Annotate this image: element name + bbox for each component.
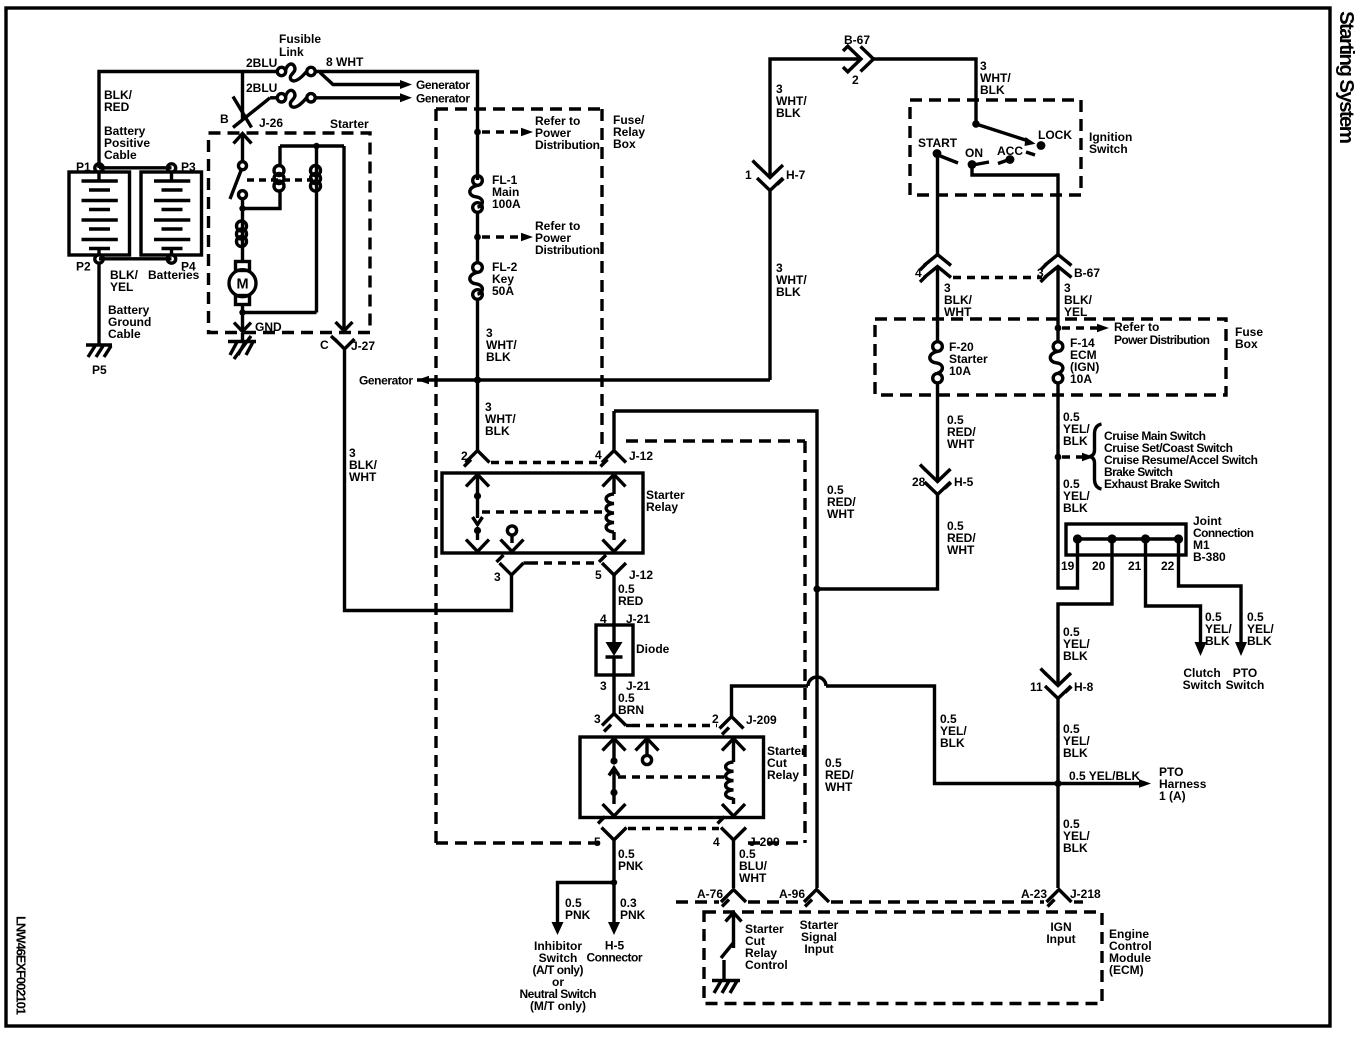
starter relay coil pin (bottom arrow)	[603, 532, 626, 552]
label 2BLU (upper)	[246, 56, 277, 70]
joint connection M1 B-380 box	[1066, 524, 1186, 555]
label F-20 Starter 10A	[949, 340, 988, 378]
node: refer tap 1	[474, 129, 481, 136]
wire: hold coil return to motor bottom	[243, 311, 317, 314]
label 3 WHT/BLK (above J-12 pin 2)	[485, 400, 516, 438]
svg-text:3: 3	[494, 570, 501, 584]
battery 1 box	[69, 172, 130, 255]
svg-text:P3: P3	[181, 160, 196, 174]
label 0.5 PNK (pin 5)	[618, 847, 644, 873]
label 0.5 YEL/BLK (cut relay coil wire)	[940, 712, 967, 750]
cut relay fixed contact (lower dot)	[610, 789, 617, 796]
connector A-23 / J-218	[1047, 890, 1072, 907]
starter relay fixed contact (upper dot)	[474, 492, 481, 499]
label 0.5 RED	[618, 582, 644, 608]
svg-text:8 WHT: 8 WHT	[326, 55, 364, 69]
wire: PTO harness branch	[1058, 782, 1139, 785]
svg-text:P2: P2	[76, 260, 91, 274]
label B-67 (lower)	[1074, 266, 1100, 280]
label J-21 (bottom)	[626, 679, 650, 693]
svg-text:H-8: H-8	[1074, 680, 1094, 694]
label B-67 (top)	[844, 33, 870, 47]
svg-text:21: 21	[1128, 559, 1142, 573]
wire: coil tops header	[280, 144, 344, 147]
label PTO Switch	[1226, 666, 1265, 692]
label 0.5 YEL/BLK (above tap)	[1063, 410, 1090, 448]
svg-text:11: 11	[1030, 680, 1043, 694]
svg-text:2: 2	[712, 712, 719, 726]
starter relay contact pin (bottom arrow)	[466, 533, 489, 552]
label 0.5 YEL/BLK (below tap)	[1063, 477, 1090, 515]
connector J-12 pin 4	[601, 411, 627, 467]
connector J-209 pin 5	[598, 817, 627, 841]
label P1	[76, 160, 91, 174]
label 0.5 YEL/BLK (still below junction)	[1063, 817, 1090, 855]
wire: 8 WHT link output to FL feed	[315, 72, 477, 181]
label BLK/RED	[104, 88, 133, 114]
label Refer to Power Distribution 2	[535, 219, 600, 257]
wire: J-209 pin 2 up and over (with hop) to YEL/BLK	[732, 677, 1057, 784]
svg-text:A-23: A-23	[1021, 887, 1047, 901]
wire FL-1 to FL-2	[476, 212, 479, 262]
svg-text:2: 2	[461, 449, 468, 463]
label Inhibitor Switch (A/T only) or Neutral Switch (M/T only)	[520, 939, 597, 1013]
dashed arrow refer to power distribution 2	[482, 233, 533, 242]
ECM dashed box	[704, 912, 1102, 1004]
cut relay contact pin (top arrow)	[603, 739, 626, 759]
dashed link J-12 pins 3-5	[530, 561, 600, 564]
starter dashed box	[209, 133, 371, 333]
svg-text:BLK/RED: BLK/RED	[104, 88, 133, 114]
label 3 WHT/BLK (below H-7)	[776, 261, 807, 299]
label Fuse Box	[1235, 325, 1263, 351]
cruise switch list brace	[1090, 424, 1102, 489]
label 4 (J-21 pin)	[600, 612, 607, 626]
fuse box dashed outline	[875, 319, 1226, 395]
label 0.5 PNK (left branch)	[565, 896, 591, 922]
label 2 (J-209 pin)	[712, 712, 719, 726]
node: starter junction	[239, 205, 245, 211]
connector C / J-27	[331, 336, 355, 349]
label Refer to Power Distribution (fuse box)	[1114, 320, 1210, 347]
label C	[320, 338, 329, 352]
label 0.5 YEL/BLK (above H-8)	[1063, 625, 1090, 663]
label J-209 (top)	[746, 713, 777, 727]
label J-27	[351, 339, 375, 353]
svg-text:J-12: J-12	[629, 568, 653, 582]
wire: generator horizontal line	[417, 378, 770, 381]
svg-text:Starting System: Starting System	[1335, 11, 1358, 144]
svg-text:B: B	[220, 112, 229, 126]
starter relay contact pin (top arrow)	[466, 475, 489, 494]
label 0.5 RED/WHT (above H-5)	[947, 413, 976, 451]
svg-text:Starter: Starter	[330, 117, 369, 131]
terminal P1	[95, 164, 103, 172]
starter relay coil pin (top arrow)	[603, 475, 626, 495]
svg-text:P5: P5	[92, 363, 107, 377]
connector B / J-26 (X symbol)	[233, 97, 270, 128]
label J-209 (bottom)	[749, 835, 780, 849]
arrow to PTO switch	[1235, 642, 1247, 656]
label 0.5 BRN	[618, 691, 644, 717]
label Engine Control Module (ECM)	[1109, 927, 1152, 977]
label 4 (J-12 pin)	[595, 448, 602, 462]
label 20	[1092, 559, 1106, 573]
label Refer to Power Distribution 1	[535, 114, 600, 152]
svg-text:Generator: Generator	[416, 78, 470, 92]
dashed link J-12 pins 2-4	[491, 461, 600, 464]
dashed mechanical link (relay)	[482, 510, 604, 513]
label 0.5 RED/WHT (below H-5)	[947, 519, 976, 557]
contact wiper from START	[939, 156, 958, 164]
wire: joint pin 20 to H-8	[1058, 543, 1112, 685]
label Battery Ground Cable	[108, 303, 151, 341]
label P2	[76, 260, 91, 274]
label J-12 (top)	[629, 449, 653, 463]
svg-text:H-7: H-7	[786, 168, 806, 182]
arrow to Generator (left)	[359, 374, 429, 388]
joint terminal 22	[1174, 534, 1183, 543]
label J-218	[1070, 887, 1101, 901]
connector J-12 pin 2	[464, 450, 490, 467]
ECM internal ground	[712, 981, 740, 994]
label cruise switch list	[1104, 429, 1258, 491]
svg-text:22: 22	[1161, 559, 1175, 573]
svg-text:J-12: J-12	[629, 449, 653, 463]
starter magnetic switch contact	[230, 162, 247, 199]
joint terminal 21	[1141, 534, 1150, 543]
contact tick ACC	[998, 161, 1007, 164]
label 21	[1128, 559, 1142, 573]
label 3 WHT/BLK (above H-7)	[776, 82, 807, 120]
arrow to PTO harness	[1139, 779, 1151, 788]
connector J-209 pin 4	[718, 817, 747, 841]
label 2 (J-12 pin)	[461, 449, 468, 463]
label 2BLU (lower)	[246, 81, 277, 95]
svg-text:C: C	[320, 338, 329, 352]
arrow to H-5 connector	[608, 922, 620, 935]
label 3 BLK/YEL (on wire)	[1064, 281, 1093, 319]
label Starter Cut Relay	[767, 744, 806, 782]
svg-text:Generator: Generator	[359, 374, 413, 388]
label 0.5 YEL/BLK (below H-8)	[1063, 722, 1090, 760]
contact tick ON	[976, 162, 990, 165]
wire: diode to J-209 pin 3	[612, 675, 615, 713]
svg-text:ClutchSwitch: ClutchSwitch	[1183, 666, 1222, 692]
fuse F-14 ECM (IGN) 10A	[1050, 342, 1063, 383]
field winding	[237, 212, 247, 262]
label 3 (J-209 pin)	[594, 712, 601, 726]
svg-text:StarterSignalInput: StarterSignalInput	[800, 918, 839, 956]
label Starter Signal Input	[800, 918, 839, 956]
label H-8	[1074, 680, 1094, 694]
wire: J-209 pin 5 down (PNK) with branch	[558, 840, 615, 924]
battery 1 plates	[82, 172, 118, 255]
ground P5	[86, 345, 112, 357]
label P4	[181, 260, 196, 274]
label GND	[255, 320, 282, 334]
svg-text:Generator: Generator	[416, 92, 470, 106]
dashed link J-209 pins 3-2	[632, 724, 717, 727]
svg-text:FL-1Main100A: FL-1Main100A	[492, 173, 521, 211]
cut relay NO terminal (circle pin)	[636, 739, 659, 765]
arrow to inhibitor switch	[552, 922, 564, 935]
svg-text:4: 4	[595, 448, 602, 462]
node: coil header junction	[313, 143, 319, 149]
svg-text:GND: GND	[255, 320, 282, 334]
cut relay contact pin (bottom arrow)	[603, 796, 626, 817]
label Batteries	[148, 268, 200, 282]
wire: J-12 pin 4 feed over to RED/WHT rail	[614, 411, 817, 888]
label Starter	[330, 117, 369, 131]
connector J-209 pin 2	[720, 717, 744, 735]
label 5 (J-12 pin)	[595, 568, 602, 582]
wire: contact to C exit	[342, 146, 345, 331]
GND exit arrow	[234, 319, 251, 332]
label Joint Connection M1 B-380	[1193, 514, 1254, 564]
svg-text:IGNInput: IGNInput	[1046, 920, 1075, 946]
node: refer tap 2	[474, 234, 481, 241]
label 4 (connector pin)	[915, 266, 922, 280]
starter entry arrow (from J-26 pin)	[234, 134, 252, 162]
node: generator line / FL-2 junction	[474, 376, 481, 383]
solenoid coil 2 (hold-in)	[311, 146, 321, 313]
label P3	[181, 160, 196, 174]
svg-text:Diode: Diode	[636, 642, 670, 656]
svg-text:ON: ON	[965, 146, 983, 160]
wire: generator line up to H-7 and across to ignition	[770, 59, 976, 380]
svg-text:2: 2	[852, 73, 859, 87]
svg-text:J-26: J-26	[259, 116, 283, 130]
wire: F-14 to joint connection	[1058, 383, 1078, 588]
starter motor M	[229, 262, 256, 305]
label H-5 Connector	[587, 939, 643, 965]
svg-text:A-76: A-76	[697, 887, 723, 901]
wire: connector 4 to F-20	[936, 267, 939, 342]
terminal P4	[167, 255, 175, 263]
label J-26	[259, 116, 283, 130]
wire: J-12 pin 5 to diode	[612, 575, 615, 625]
starter case ground symbol	[228, 333, 256, 359]
svg-text:START: START	[918, 136, 958, 150]
label A-23	[1021, 887, 1047, 901]
dashed mechanical link (switch to coils)	[247, 178, 313, 181]
connector H-5 (double chevron down)	[920, 465, 951, 495]
wire: F-20 to H-5	[936, 383, 939, 481]
svg-text:J-27: J-27	[351, 339, 375, 353]
starter relay fixed contact (lower dot)	[474, 527, 481, 534]
contact LOCK	[1037, 128, 1073, 150]
node: cruise tap	[1055, 454, 1062, 461]
svg-text:ACC: ACC	[997, 144, 1023, 158]
label 19	[1061, 559, 1075, 573]
svg-text:J-209: J-209	[746, 713, 777, 727]
label 1 (H-7 pin)	[745, 168, 752, 182]
svg-text:2BLU: 2BLU	[246, 56, 277, 70]
starter relay coil	[606, 494, 614, 532]
label FL-1 Main 100A	[492, 173, 521, 211]
fuse/relay box dashed outline	[436, 109, 805, 843]
dashed link J-209 pins 5-4	[628, 827, 719, 830]
svg-text:B-67: B-67	[1074, 266, 1100, 280]
starter relay moving contact arrow	[473, 499, 483, 525]
label 0.5 BLU/WHT	[739, 847, 768, 885]
connector 3 / B-67 (double chevron up)	[1041, 255, 1072, 283]
label A-96	[779, 887, 805, 901]
svg-text:Batteries: Batteries	[148, 268, 200, 282]
dashed link between connectors 4 and 3	[953, 276, 1042, 279]
label 0.5 YEL/BLK (pto harness wire)	[1069, 769, 1140, 783]
label 28 (H-5 pin)	[912, 475, 926, 489]
label BLK/YEL	[110, 268, 139, 294]
wire: F-20 branch to RED/WHT rail	[817, 495, 938, 589]
label 3 BLK/WHT (starter to relay wire)	[349, 446, 378, 484]
wire: START output down	[936, 158, 939, 255]
starter relay box	[442, 473, 643, 553]
wire: J-27 down and right to J-12 pin 3 (3 BLK/WHT)	[345, 349, 512, 611]
svg-text:1: 1	[745, 168, 752, 182]
svg-text:0.5 YEL/BLK: 0.5 YEL/BLK	[1069, 769, 1140, 783]
label 0.5 RED/WHT (rail lower)	[825, 756, 854, 794]
label 0.5 YEL/BLK (clutch)	[1205, 610, 1232, 648]
starter cut relay box	[580, 737, 764, 818]
wire P1-P3	[99, 166, 172, 169]
contact ACC	[997, 144, 1023, 164]
C exit arrow	[336, 322, 353, 331]
connector J-12 pin 5	[599, 555, 626, 575]
label Ignition Switch	[1089, 130, 1132, 156]
svg-text:H-5: H-5	[954, 475, 974, 489]
svg-text:J-218: J-218	[1070, 887, 1101, 901]
node: motor bottom junction	[239, 309, 245, 315]
svg-text:LNW46EXF002101: LNW46EXF002101	[14, 916, 29, 1015]
cut relay coil pin (bottom arrow)	[722, 798, 745, 816]
label Starter Relay	[646, 488, 685, 514]
svg-text:5: 5	[595, 568, 602, 582]
label 3 WHT/BLK (right of ignition feed)	[980, 59, 1011, 97]
wire: ON output down-right	[972, 169, 1058, 255]
dashed arrow refer to power distribution 1	[482, 128, 533, 137]
svg-text:28: 28	[912, 475, 926, 489]
fuse FL-2 Key 50A	[470, 263, 483, 300]
svg-text:4: 4	[915, 266, 922, 280]
label 0.5 YEL/BLK (pto)	[1247, 610, 1274, 648]
dashed ECM connector line	[676, 900, 1083, 903]
node: RED/WHT junction at F-20 branch	[813, 585, 820, 592]
terminal P3	[167, 164, 175, 172]
wire: J-209 pin 4 to A-76 (0.5 BLU/WHT)	[732, 840, 735, 888]
contact ON	[965, 146, 983, 169]
dashed arrow refer to power distribution (fuse box)	[1062, 324, 1109, 333]
label H-7	[786, 168, 806, 182]
diode J-21 box	[596, 625, 633, 675]
label H-5	[954, 475, 974, 489]
node: PTO harness junction	[1054, 780, 1061, 787]
label 2 (B-67 pin)	[852, 73, 859, 87]
wire P2-P4	[99, 257, 172, 260]
solenoid coil 1 (pull-in)	[274, 146, 284, 191]
label A-76	[697, 887, 723, 901]
label 8 WHT	[326, 55, 364, 69]
svg-text:19: 19	[1061, 559, 1075, 573]
battery 2 plates	[154, 172, 190, 255]
label 0.3 PNK (right branch)	[620, 896, 646, 922]
label 11 (H-8 pin)	[1030, 680, 1043, 694]
svg-text:2BLU: 2BLU	[246, 81, 277, 95]
label Fuse/Relay Box	[613, 113, 645, 151]
ignition switch dashed box	[910, 100, 1081, 195]
svg-text:FL-2Key50A: FL-2Key50A	[492, 260, 518, 298]
dashed mechanical link (cut relay)	[618, 775, 725, 778]
fuse FL-1 Main 100A	[470, 176, 483, 213]
fusible link label	[279, 32, 321, 59]
starter relay NO terminal (circle pin)	[501, 526, 524, 552]
fusible link FL upper (8 WHT)	[277, 64, 315, 81]
joint terminal 20	[1107, 534, 1116, 543]
connector H-8 (double chevron down)	[1041, 669, 1072, 699]
label Battery Positive Cable	[104, 124, 150, 162]
svg-text:4: 4	[713, 835, 720, 849]
label J-21 (top)	[626, 612, 650, 626]
title: Starting System (vertical)	[1335, 11, 1358, 144]
label Clutch Switch	[1183, 666, 1222, 692]
terminal P2	[95, 255, 103, 263]
fuse F-20 Starter 10A	[930, 342, 943, 383]
ECM starter cut relay control driver	[721, 913, 742, 981]
arrow to Generator 2	[400, 92, 470, 106]
wire: connector 3 to F-14	[1056, 267, 1059, 342]
cut relay fixed contact (upper dot)	[610, 757, 617, 764]
arrow to clutch switch	[1195, 642, 1207, 656]
label FL-2 Key 50A	[492, 260, 518, 298]
wire: battery ground cable P2 down	[97, 263, 100, 345]
svg-text:B-67: B-67	[844, 33, 870, 47]
node: PNK branch junction	[611, 879, 617, 885]
svg-text:3: 3	[600, 679, 607, 693]
label 3 (J-12 pin)	[494, 570, 501, 584]
wire: branch diagonal to generator arrow 1	[320, 73, 400, 85]
connector B-67 (top, double chevron)	[843, 45, 874, 73]
ignition rotor arm to LOCK	[976, 124, 1036, 146]
diode symbol	[606, 625, 623, 675]
cut relay coil pin (top arrow)	[722, 739, 745, 763]
wire: H-8 to A-23	[1056, 699, 1059, 888]
label 4 (J-209 pin)	[713, 835, 720, 849]
svg-text:IgnitionSwitch: IgnitionSwitch	[1089, 130, 1132, 156]
label 0.5 RED/WHT (rail upper)	[827, 483, 856, 521]
cut relay coil	[726, 762, 734, 799]
node: F-14 refer tap	[1055, 325, 1062, 332]
contact tick LOCK	[1026, 152, 1035, 155]
label PTO Harness 1 (A)	[1159, 765, 1207, 803]
wire: junction to hold-in coil	[243, 191, 281, 209]
wire: joint pin 21 to clutch switch	[1146, 543, 1201, 644]
label M	[237, 277, 249, 293]
label F-14 ECM (IGN) 10A	[1070, 336, 1099, 386]
label 3 BLK/WHT (start wire)	[944, 281, 973, 319]
label IGN Input	[1046, 920, 1075, 946]
connector J-209 pin 3	[602, 714, 632, 732]
node: ignition input dot	[972, 120, 980, 128]
wire: battery positive cable P1 to B	[99, 72, 277, 169]
label 22	[1161, 559, 1175, 573]
connector A-96	[804, 890, 829, 907]
dashed arrow to cruise switches	[1062, 453, 1094, 462]
svg-text:Exhaust Brake Switch: Exhaust Brake Switch	[1104, 477, 1220, 491]
battery 2 box	[141, 172, 202, 255]
joint terminal 19	[1073, 534, 1082, 543]
wire: switch to junction	[241, 199, 244, 212]
